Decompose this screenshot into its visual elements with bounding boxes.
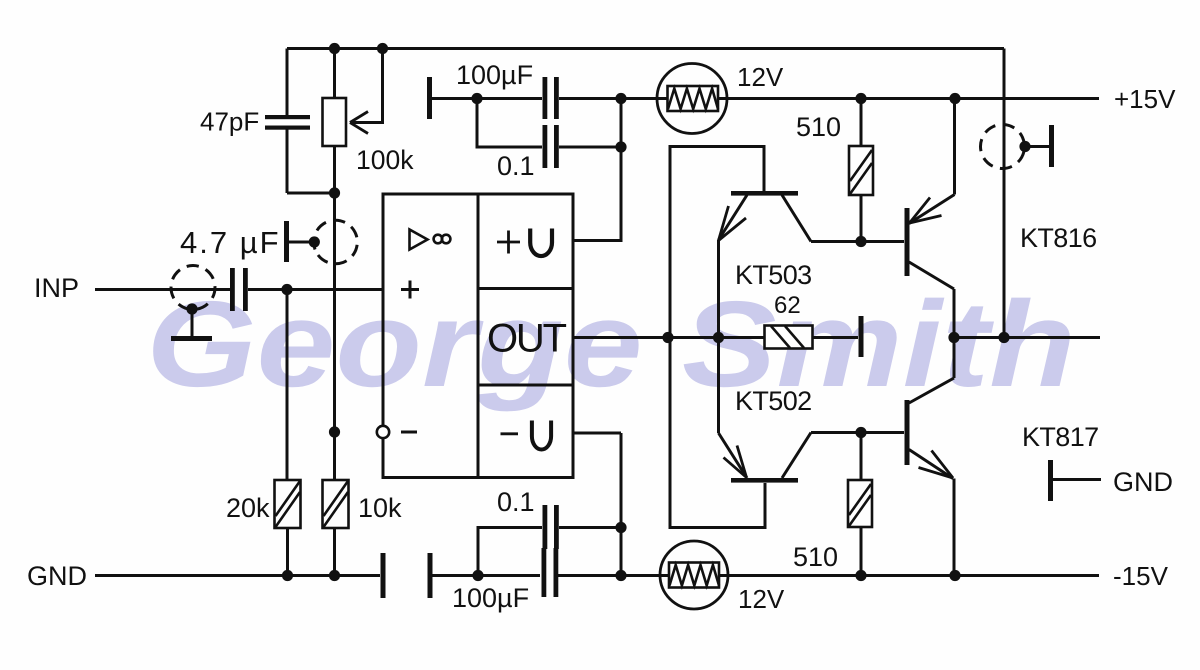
svg-text:GND: GND bbox=[1113, 467, 1173, 497]
svg-text:+15V: +15V bbox=[1114, 84, 1176, 114]
svg-text:KT817: KT817 bbox=[1022, 422, 1099, 452]
svg-text:510: 510 bbox=[796, 112, 841, 142]
svg-text:47pF: 47pF bbox=[200, 107, 259, 137]
svg-text:KT503: KT503 bbox=[735, 260, 812, 290]
svg-text:0.1: 0.1 bbox=[497, 487, 535, 517]
svg-text:100k: 100k bbox=[356, 145, 414, 175]
svg-text:10k: 10k bbox=[358, 493, 402, 523]
svg-text:KT816: KT816 bbox=[1020, 223, 1097, 253]
svg-text:4.7 µF: 4.7 µF bbox=[180, 225, 281, 260]
svg-text:OUT: OUT bbox=[487, 317, 567, 361]
svg-text:KT502: KT502 bbox=[735, 386, 812, 416]
svg-text:100µF: 100µF bbox=[452, 583, 529, 613]
svg-text:12V: 12V bbox=[737, 62, 784, 92]
svg-text:510: 510 bbox=[793, 542, 838, 572]
svg-text:GND: GND bbox=[27, 561, 87, 591]
svg-text:12V: 12V bbox=[738, 584, 785, 614]
svg-text:62: 62 bbox=[774, 292, 801, 319]
svg-text:100µF: 100µF bbox=[456, 60, 533, 90]
svg-text:20k: 20k bbox=[226, 493, 270, 523]
svg-text:INP: INP bbox=[34, 273, 79, 303]
svg-text:-15V: -15V bbox=[1113, 561, 1169, 591]
svg-text:0.1: 0.1 bbox=[497, 151, 535, 181]
